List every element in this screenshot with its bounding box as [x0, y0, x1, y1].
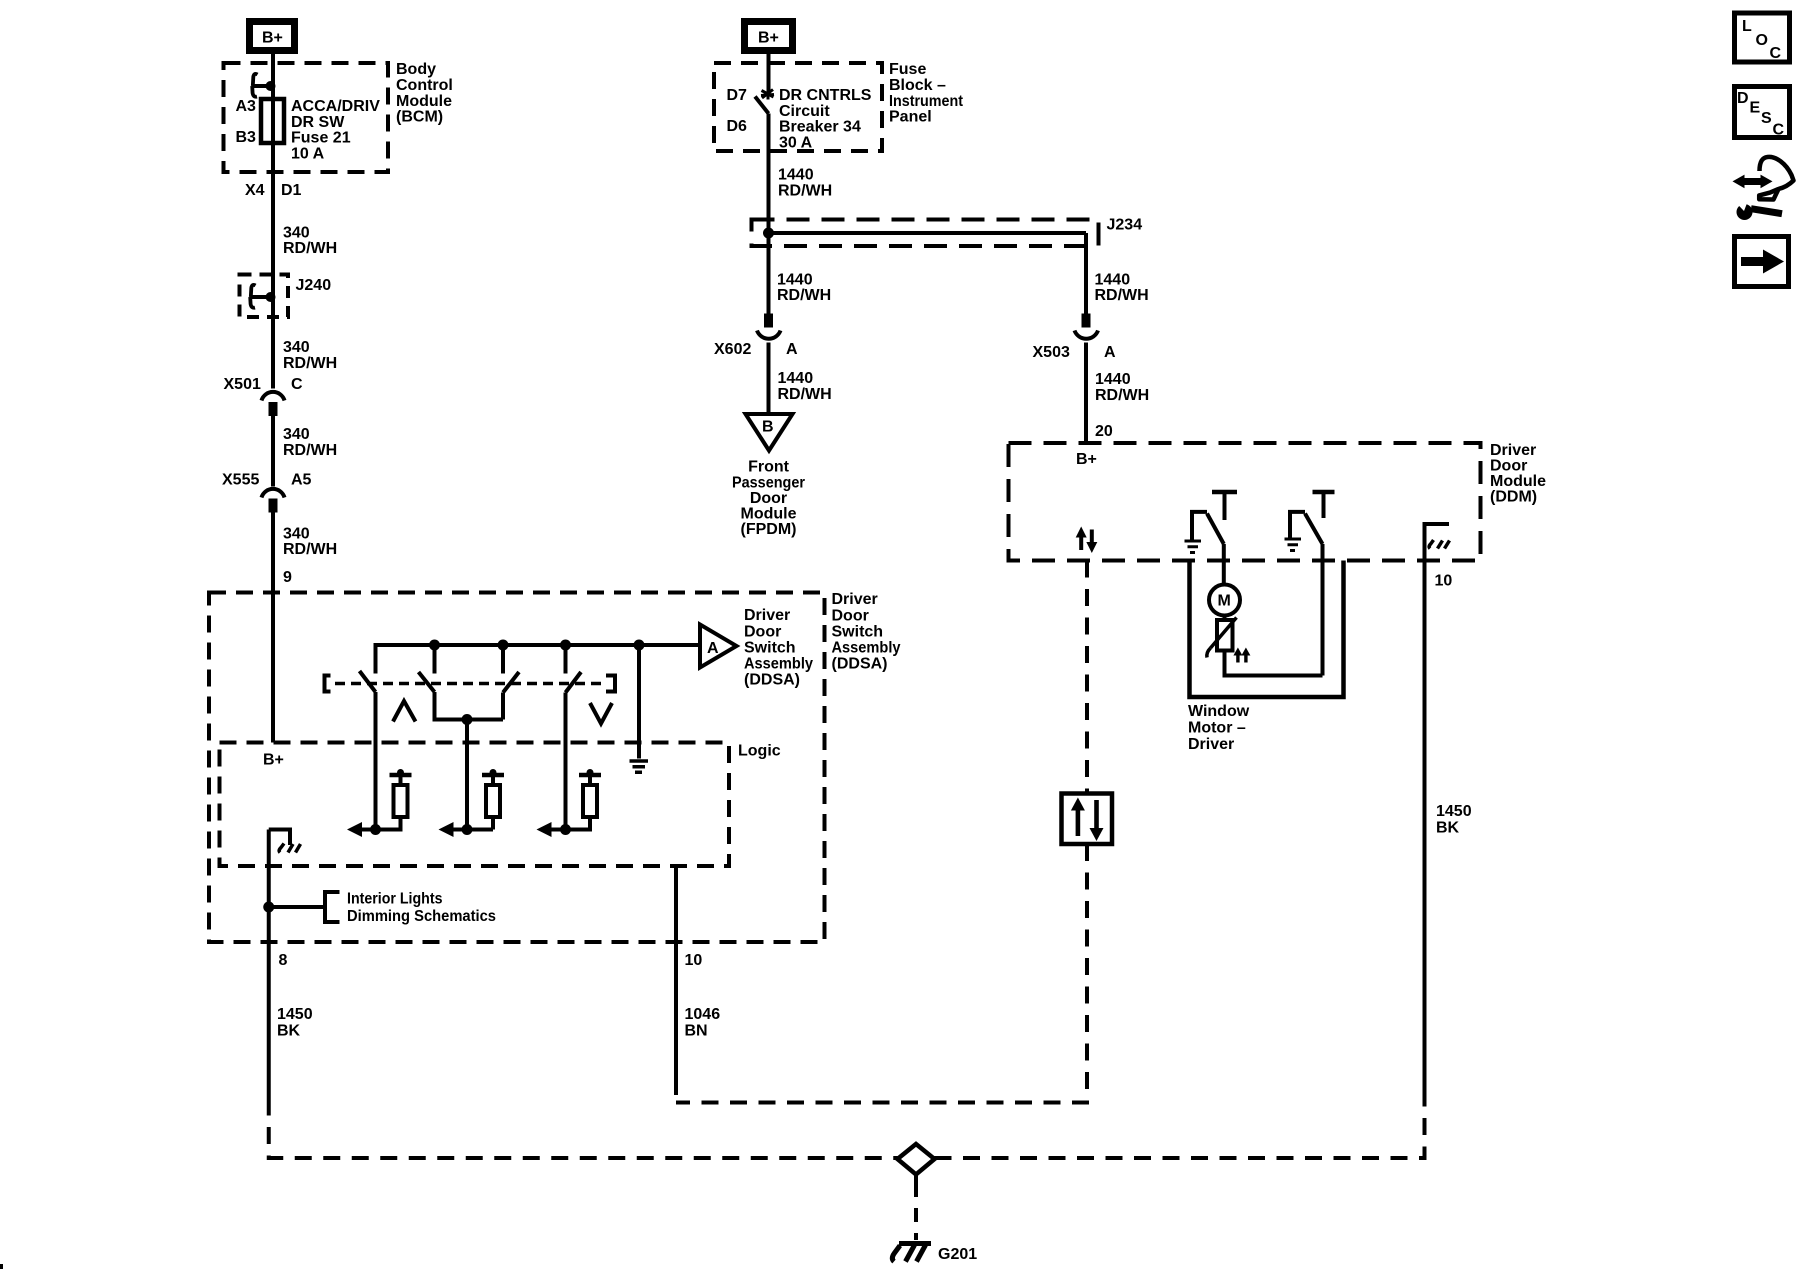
- svg-text:1450: 1450: [277, 1006, 313, 1023]
- svg-text:Motor –: Motor –: [1188, 720, 1246, 737]
- svg-text:Window: Window: [1188, 703, 1250, 720]
- svg-text:B+: B+: [758, 30, 779, 47]
- svg-text:10: 10: [1435, 573, 1453, 590]
- svg-text:Body: Body: [396, 61, 436, 78]
- svg-text:S: S: [1761, 110, 1772, 127]
- svg-text:X501: X501: [224, 376, 261, 393]
- svg-text:L: L: [1742, 18, 1752, 35]
- svg-text:Breaker 34: Breaker 34: [779, 119, 861, 136]
- svg-text:RD/WH: RD/WH: [778, 386, 832, 403]
- svg-text:D: D: [1737, 90, 1749, 107]
- svg-text:Door: Door: [832, 608, 869, 625]
- svg-text:BK: BK: [1436, 820, 1460, 837]
- svg-text:B3: B3: [236, 129, 257, 146]
- svg-text:C: C: [1773, 122, 1785, 139]
- svg-text:9: 9: [283, 569, 292, 586]
- svg-text:Module: Module: [741, 506, 797, 523]
- svg-text:D1: D1: [281, 182, 302, 199]
- svg-text:G201: G201: [938, 1246, 977, 1263]
- svg-text:BN: BN: [685, 1023, 708, 1040]
- svg-text:RD/WH: RD/WH: [283, 240, 337, 257]
- svg-text:C: C: [291, 376, 303, 393]
- svg-text:340: 340: [283, 339, 310, 356]
- svg-text:Front: Front: [748, 459, 790, 476]
- svg-text:D7: D7: [727, 87, 748, 104]
- svg-text:Assembly: Assembly: [832, 640, 901, 657]
- svg-text:10: 10: [685, 952, 703, 969]
- svg-text:(DDSA): (DDSA): [744, 672, 800, 689]
- svg-text:X555: X555: [222, 472, 259, 489]
- svg-text:Instrument: Instrument: [889, 93, 964, 110]
- svg-text:RD/WH: RD/WH: [283, 442, 337, 459]
- svg-text:Logic: Logic: [738, 743, 781, 760]
- svg-text:Driver: Driver: [1188, 736, 1234, 753]
- svg-text:1440: 1440: [778, 167, 814, 184]
- svg-text:B: B: [762, 419, 774, 436]
- svg-text:DR CNTRLS: DR CNTRLS: [779, 87, 872, 104]
- svg-text:Fuse 21: Fuse 21: [291, 130, 351, 147]
- svg-text:1440: 1440: [1095, 371, 1131, 388]
- svg-text:10 A: 10 A: [291, 146, 325, 163]
- svg-text:BK: BK: [277, 1023, 301, 1040]
- svg-text:1440: 1440: [1095, 272, 1131, 289]
- svg-text:20: 20: [1095, 423, 1113, 440]
- svg-text:DR SW: DR SW: [291, 114, 345, 131]
- svg-text:8: 8: [279, 952, 288, 969]
- svg-text:A: A: [707, 640, 719, 657]
- svg-text:340: 340: [283, 526, 310, 543]
- svg-text:(FPDM): (FPDM): [741, 521, 797, 538]
- svg-text:Door: Door: [744, 624, 781, 641]
- svg-text:RD/WH: RD/WH: [283, 541, 337, 558]
- svg-text:A5: A5: [291, 472, 312, 489]
- svg-text:(DDM): (DDM): [1490, 489, 1537, 506]
- svg-text:Switch: Switch: [744, 640, 796, 657]
- svg-text:340: 340: [283, 225, 310, 242]
- svg-text:1046: 1046: [685, 1006, 721, 1023]
- svg-text:Driver: Driver: [832, 591, 878, 608]
- svg-text:1440: 1440: [778, 370, 814, 387]
- svg-text:A: A: [1104, 344, 1116, 361]
- svg-text:E: E: [1750, 100, 1761, 117]
- svg-text:RD/WH: RD/WH: [1095, 387, 1149, 404]
- svg-text:Module: Module: [1490, 473, 1546, 490]
- svg-text:340: 340: [283, 426, 310, 443]
- svg-text:Switch: Switch: [832, 624, 884, 641]
- svg-text:Passenger: Passenger: [732, 475, 805, 492]
- svg-text:A3: A3: [236, 98, 257, 115]
- svg-text:Door: Door: [750, 490, 787, 507]
- svg-text:B+: B+: [262, 30, 283, 47]
- svg-text:X602: X602: [714, 341, 751, 358]
- svg-text:A: A: [786, 341, 798, 358]
- svg-text:Control: Control: [396, 77, 453, 94]
- svg-text:Door: Door: [1490, 458, 1527, 475]
- svg-text:RD/WH: RD/WH: [778, 183, 832, 200]
- svg-text:(BCM): (BCM): [396, 109, 443, 126]
- svg-text:Circuit: Circuit: [779, 103, 830, 120]
- svg-text:B+: B+: [1076, 451, 1097, 468]
- svg-text:30 A: 30 A: [779, 135, 813, 152]
- svg-text:Module: Module: [396, 93, 452, 110]
- svg-text:Assembly: Assembly: [744, 656, 813, 673]
- svg-text:RD/WH: RD/WH: [777, 287, 831, 304]
- svg-text:J234: J234: [1107, 217, 1143, 234]
- svg-text:C: C: [1770, 45, 1782, 62]
- svg-text:1440: 1440: [777, 272, 813, 289]
- svg-text:RD/WH: RD/WH: [1095, 287, 1149, 304]
- svg-text:Dimming Schematics: Dimming Schematics: [347, 908, 496, 925]
- svg-text:RD/WH: RD/WH: [283, 355, 337, 372]
- svg-text:ACCA/DRIV: ACCA/DRIV: [291, 98, 380, 115]
- svg-text:1450: 1450: [1436, 803, 1472, 820]
- svg-text:J240: J240: [296, 277, 332, 294]
- svg-text:M: M: [1218, 593, 1231, 610]
- svg-text:D6: D6: [727, 118, 748, 135]
- svg-text:Fuse: Fuse: [889, 61, 926, 78]
- svg-text:X4: X4: [245, 182, 265, 199]
- svg-text:O: O: [1756, 32, 1768, 49]
- svg-text:Interior Lights: Interior Lights: [347, 891, 443, 908]
- svg-text:Driver: Driver: [744, 607, 790, 624]
- svg-text:Driver: Driver: [1490, 442, 1536, 459]
- svg-text:Panel: Panel: [889, 109, 932, 126]
- svg-text:X503: X503: [1033, 344, 1070, 361]
- svg-text:B+: B+: [263, 752, 284, 769]
- svg-text:(DDSA): (DDSA): [832, 656, 888, 673]
- svg-text:Block –: Block –: [889, 77, 946, 94]
